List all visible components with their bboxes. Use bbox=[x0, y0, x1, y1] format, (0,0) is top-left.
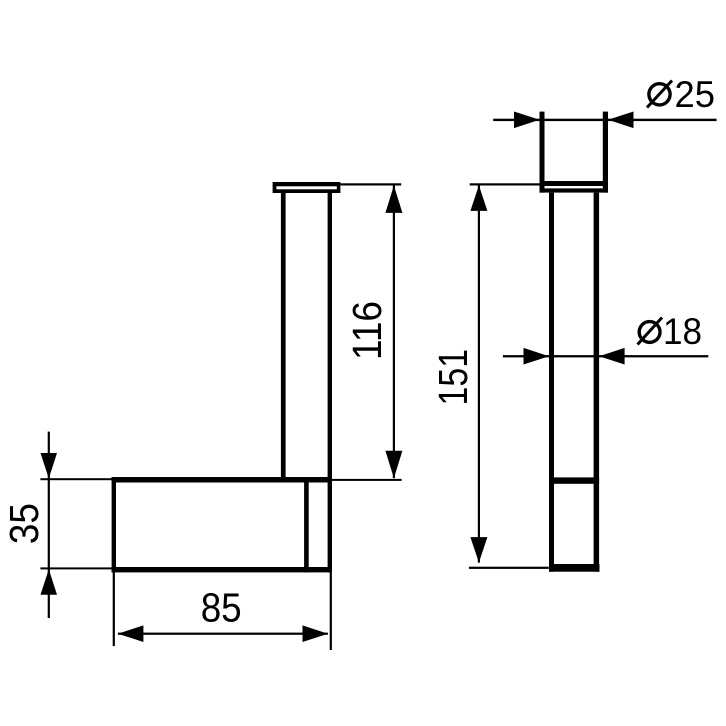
dim 151: dimension line bbox=[478, 185, 480, 562]
svg-text:85: 85 bbox=[201, 584, 242, 630]
dim 116: bottom arrow bbox=[385, 451, 402, 478]
dim 151: bottom arrow bbox=[470, 537, 487, 563]
dim diam25: right arrow bbox=[608, 112, 634, 129]
dim 35: up arrow bbox=[41, 569, 58, 595]
dim diam25: left arrow bbox=[514, 112, 540, 129]
svg-text:151: 151 bbox=[430, 349, 476, 406]
left view: rod right edge / bracket right edge bbox=[328, 193, 332, 572]
dim 85: left arrow bbox=[118, 625, 143, 642]
left view: bracket top edge bbox=[112, 477, 332, 483]
left view: bracket bottom edge bbox=[112, 567, 332, 572]
dim 35: bottom extension line bbox=[40, 567, 112, 569]
left view: bracket divider line bbox=[304, 477, 309, 572]
dim diam18: left arrow bbox=[524, 348, 550, 365]
left view: cap plate (side) bbox=[273, 182, 341, 193]
dim 85: left extension line bbox=[113, 572, 115, 646]
right view: rod divider line bbox=[549, 477, 599, 483]
dim 35: down arrow bbox=[41, 453, 58, 479]
dim 151: top arrow bbox=[470, 185, 487, 211]
dim diam25: dimension line bbox=[493, 119, 716, 121]
dim 85: right extension line bbox=[330, 572, 332, 650]
dim 116: dimension line bbox=[393, 186, 395, 479]
right view: rod left edge bbox=[549, 193, 554, 572]
dim diam25: label bbox=[647, 74, 715, 115]
right view: flange top line bbox=[540, 181, 609, 186]
left view: rod left edge bbox=[281, 193, 286, 481]
dim 85: dimension line bbox=[118, 633, 328, 635]
svg-text:18: 18 bbox=[663, 311, 702, 352]
right view: cap right edge bbox=[603, 112, 608, 193]
dim 35: top extension line bbox=[40, 478, 112, 480]
dim 116: bottom extension line bbox=[332, 479, 402, 481]
dim diam18: right arrow bbox=[599, 348, 625, 365]
dim 151: top extension line bbox=[470, 183, 543, 185]
dim 116: top arrow bbox=[385, 186, 402, 213]
right view: rod bottom edge bbox=[549, 564, 600, 572]
svg-text:25: 25 bbox=[675, 74, 716, 115]
left view: bracket left edge bbox=[112, 477, 116, 572]
dim diam18: label bbox=[638, 311, 703, 352]
dim 151: bottom extension line bbox=[469, 567, 549, 569]
dim 85: right arrow bbox=[303, 625, 329, 642]
svg-text:116: 116 bbox=[344, 301, 390, 360]
dim 35: dimension line bbox=[48, 432, 50, 618]
dim diam18: dimension line bbox=[503, 355, 708, 357]
dim 116: top extension line bbox=[340, 183, 401, 185]
right view: cap left edge bbox=[540, 112, 545, 193]
right view: flange bottom line bbox=[540, 188, 609, 192]
svg-text:35: 35 bbox=[1, 503, 47, 544]
right view: rod right edge bbox=[594, 193, 600, 572]
